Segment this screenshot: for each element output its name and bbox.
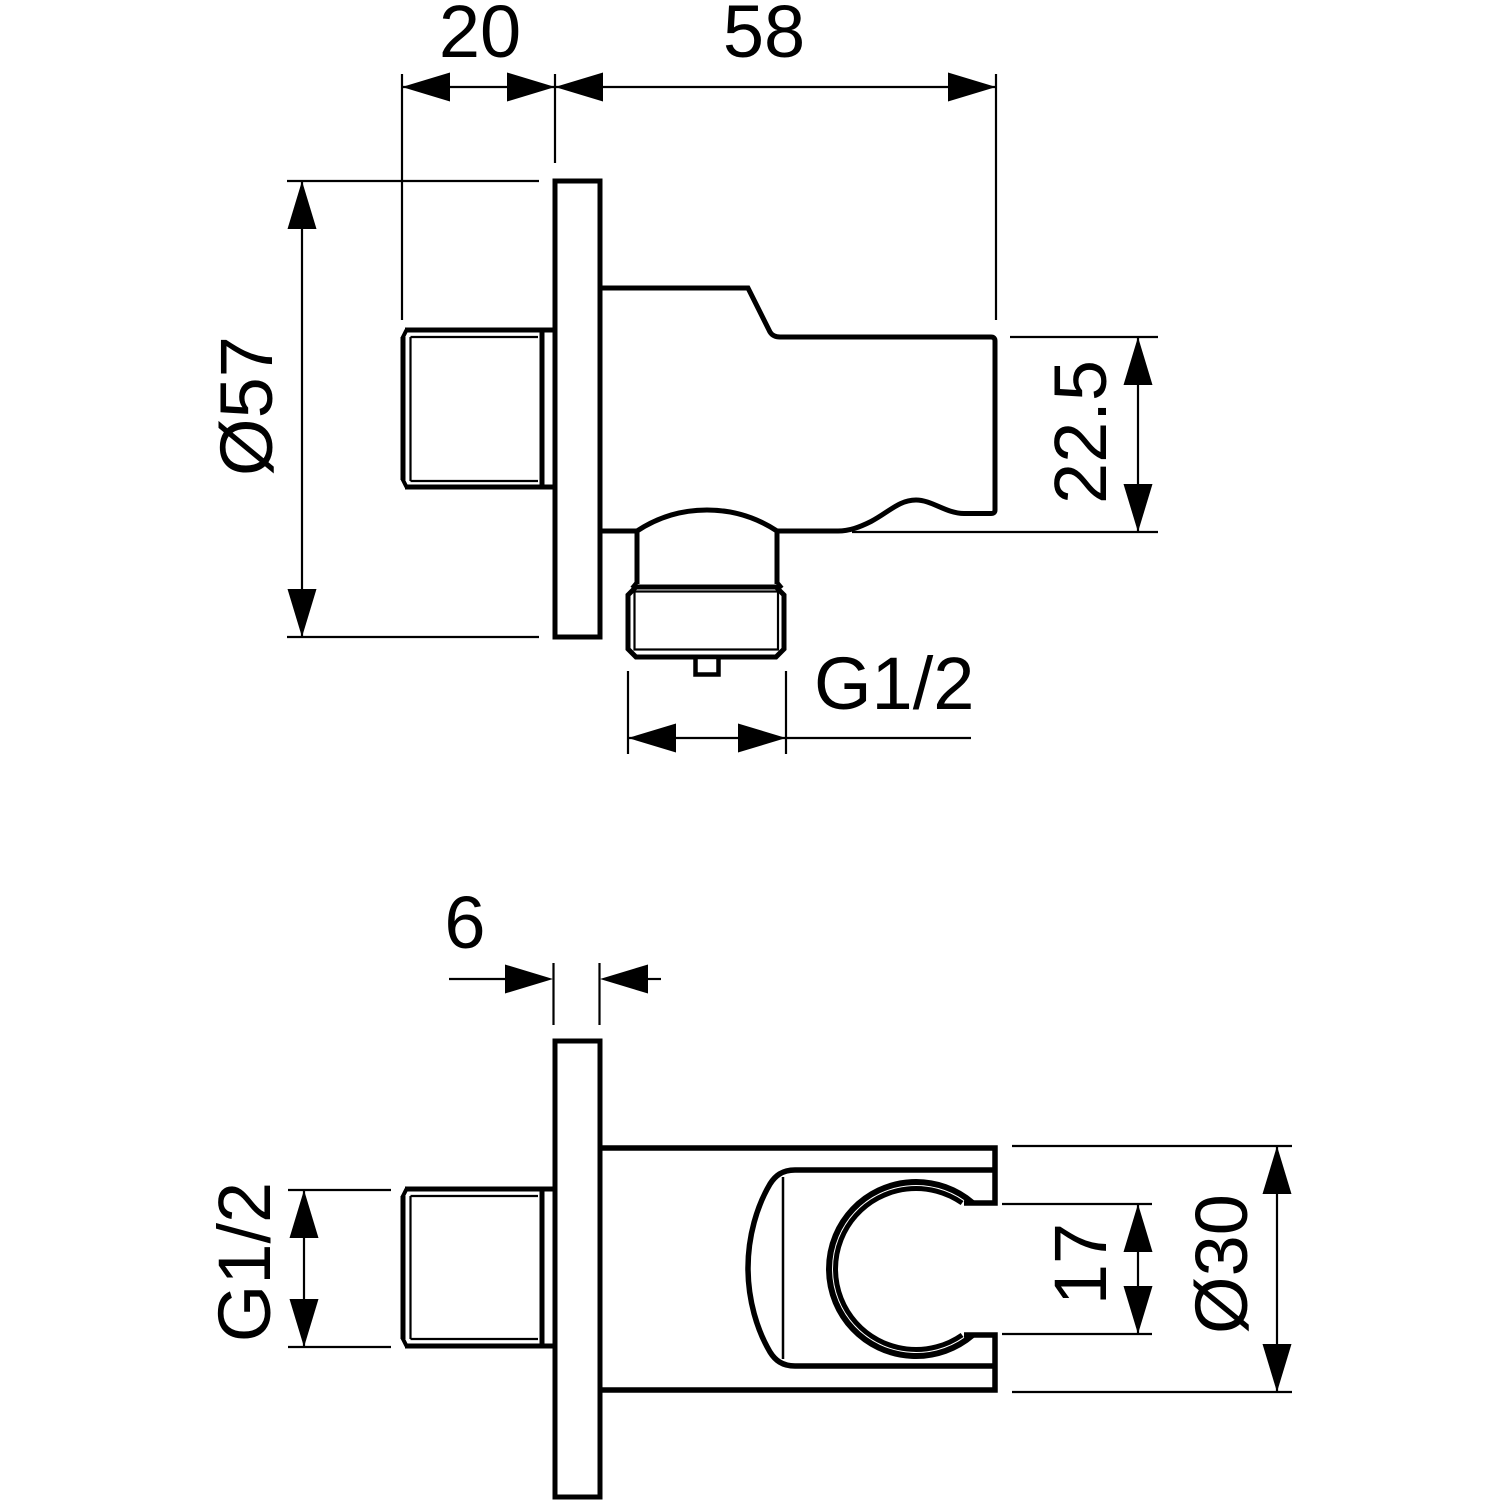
dim D30 arrow up: [1263, 1146, 1292, 1194]
holder socket inner arc: [836, 1189, 963, 1350]
dim G1/2 (plan view) extension line bottom: [288, 1346, 391, 1348]
dim G1/2 (top view) extension line left: [627, 671, 629, 754]
dim 17 extension line bottom: [1002, 1333, 1152, 1335]
threaded nipple (side view) thread root lines: [411, 337, 539, 481]
dim 20 arrow left: [402, 73, 450, 102]
threaded nipple (plan view) thread root lines: [411, 1196, 539, 1339]
dim G1/2 (plan view) arrow down: [290, 1299, 319, 1347]
holder body outline (side view): [600, 288, 995, 531]
outlet nut inner lines: [635, 592, 779, 650]
threaded nipple (plan view) chamfers: [403, 1189, 407, 1197]
dim 17 arrow up: [1124, 1204, 1153, 1252]
threaded nipple (side view) chamfers: [403, 330, 407, 338]
dim G1/2 (top view) dimension line: [628, 737, 971, 739]
svg-text:Ø57: Ø57: [205, 336, 288, 476]
dim D57 extension line bottom: [287, 636, 539, 638]
dim 20/58 shared extension line (x=555): [554, 74, 556, 163]
dim 22.5 dimension line: [1137, 337, 1139, 532]
dim D57 dimension line: [301, 181, 303, 637]
dim 22.5 arrow up: [1124, 337, 1153, 385]
dim G1/2 (plan view) arrow up: [290, 1190, 319, 1238]
dim D30 extension line top: [1012, 1145, 1292, 1147]
dim G1/2 (plan view) extension line top: [288, 1189, 391, 1191]
dim 20 arrow right: [507, 73, 555, 102]
dim 6 tail left: [449, 978, 506, 980]
dim D57 arrow down: [288, 589, 317, 637]
outlet boss left wall: [635, 531, 640, 584]
dim 22.5 extension line top: [1010, 336, 1158, 338]
wall plate (side view): [555, 181, 600, 637]
outlet nut outer outline: [628, 587, 784, 657]
dim D57 arrow up: [288, 181, 317, 229]
dim 22.5 extension line bottom: [852, 531, 1158, 533]
dim 17 arrow down: [1124, 1286, 1153, 1334]
outlet nipple stub: [696, 657, 719, 675]
dim 17 extension line top: [1002, 1203, 1152, 1205]
dim 17 dimension line: [1137, 1204, 1139, 1334]
outlet boss right wall: [775, 531, 780, 584]
dim D30 dimension line: [1276, 1146, 1278, 1392]
dim 20 extension line left (x=402): [401, 74, 403, 320]
dim 58 arrow left: [555, 73, 603, 102]
dim 20 dimension line: [402, 86, 555, 88]
dim D30 arrow down: [1263, 1344, 1292, 1392]
threaded nipple (plan view) outer outline: [403, 1189, 553, 1346]
holder body outline (plan view) upper part: [600, 1148, 995, 1203]
wall plate (plan view): [555, 1041, 600, 1497]
outlet boss left flare: [632, 582, 637, 588]
outlet boss right flare: [777, 582, 782, 588]
dim 22.5 arrow down: [1124, 484, 1153, 532]
dim 6 tail right: [648, 978, 661, 980]
dim D57 extension line top: [287, 180, 539, 182]
svg-text:58: 58: [723, 0, 805, 73]
dim 6 arrow right (points left): [600, 965, 648, 994]
svg-text:22.5: 22.5: [1039, 360, 1122, 504]
svg-text:G1/2: G1/2: [814, 642, 974, 725]
dim G1/2 (plan view) dimension line: [303, 1190, 305, 1347]
holder socket outer arc: [829, 1182, 973, 1356]
dim G1/2 (top view) arrow left: [628, 724, 676, 753]
dim G1/2 (top view) extension line right: [785, 671, 787, 754]
svg-text:G1/2: G1/2: [203, 1182, 286, 1342]
svg-text:6: 6: [444, 881, 485, 964]
holder insert capsule outline (plan view): [748, 1170, 995, 1366]
dim 6 extension line left (x=553.5): [552, 963, 554, 1025]
threaded nipple (side view) outer outline: [403, 330, 553, 487]
holder body outline (plan view) lower part: [600, 1335, 995, 1390]
svg-text:Ø30: Ø30: [1180, 1194, 1263, 1334]
dim G1/2 (top view) arrow right: [738, 724, 786, 753]
dim D30 extension line bottom: [1012, 1391, 1292, 1393]
dim 58 arrow right: [948, 73, 996, 102]
holder insert flat-face chord line: [782, 1177, 785, 1359]
svg-text:20: 20: [439, 0, 521, 73]
dim 6 extension line right (x=599.5): [598, 963, 600, 1025]
svg-text:17: 17: [1039, 1223, 1122, 1305]
dim 58 dimension line: [555, 86, 996, 88]
dim 6 arrow left (points right): [505, 965, 553, 994]
dim 58 extension line right (x=996): [995, 74, 997, 320]
